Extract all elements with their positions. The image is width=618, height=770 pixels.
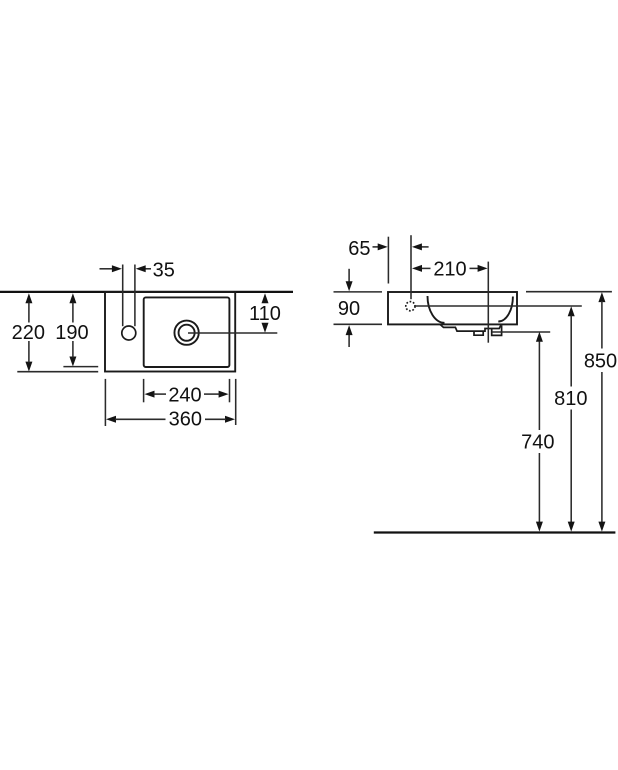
svg-text:65: 65 [348, 238, 370, 260]
svg-text:810: 810 [554, 388, 587, 410]
svg-text:360: 360 [169, 408, 202, 430]
svg-text:740: 740 [521, 432, 554, 454]
svg-text:850: 850 [584, 350, 617, 372]
svg-text:90: 90 [338, 298, 360, 320]
svg-text:110: 110 [249, 303, 281, 325]
svg-text:240: 240 [168, 384, 201, 406]
svg-text:190: 190 [55, 322, 88, 344]
svg-text:35: 35 [153, 260, 175, 282]
svg-text:220: 220 [12, 322, 45, 344]
svg-text:210: 210 [433, 259, 466, 281]
